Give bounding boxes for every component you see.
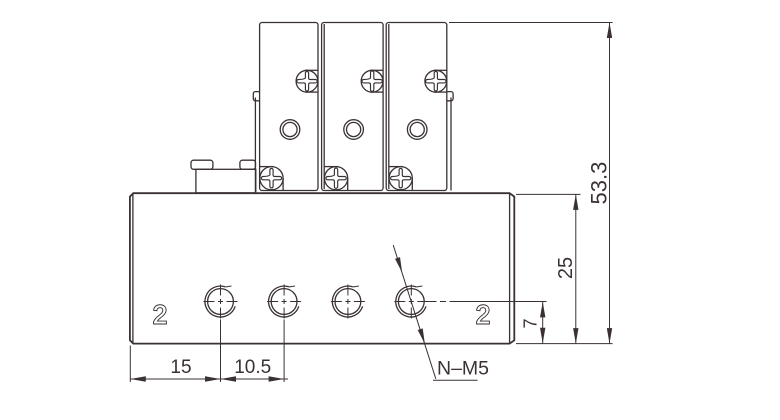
hole 1 centerline extension bbox=[220, 320, 222, 383]
valve V1 bottom mounting screw bbox=[260, 167, 283, 190]
valve V1 left clip tab bbox=[253, 92, 259, 101]
dim 25 dimension line bbox=[575, 194, 577, 343]
manifold right chamfer line bbox=[509, 193, 511, 343]
valve V3 bottom screw boss bbox=[389, 166, 403, 168]
svg-text:2: 2 bbox=[476, 300, 490, 330]
svg-text:25: 25 bbox=[555, 257, 577, 279]
leader line through hole 4 bbox=[393, 245, 436, 379]
solenoid valve V1 body bbox=[260, 23, 318, 191]
valve V1 top mounting screw bbox=[296, 70, 318, 92]
dim 25 arrow down bbox=[573, 328, 578, 344]
valve V2 top screw boss bbox=[370, 69, 383, 71]
threaded mounting hole 3 (N-M5) bbox=[335, 289, 361, 315]
valve V3 top screw boss bbox=[434, 69, 447, 71]
valve V3 bottom mounting screw bbox=[389, 167, 412, 190]
leader arrow at base bottom edge bbox=[418, 328, 425, 344]
manifold base block outline bbox=[130, 193, 514, 343]
valve V1 bottom screw boss bbox=[260, 166, 274, 168]
svg-text:15: 15 bbox=[170, 357, 191, 378]
dim 53.3 extension line bottom bbox=[516, 343, 613, 345]
dim 7 extension line (hole 4 centerline) bbox=[427, 301, 547, 303]
valve V1 pilot port (double circle) bbox=[280, 120, 300, 140]
dim 7 arrow down bbox=[540, 328, 545, 344]
threaded mounting hole 4 (N-M5) bbox=[398, 289, 424, 315]
valve V2 pilot port (double circle) bbox=[344, 120, 364, 140]
solenoid valve V3 body bbox=[386, 23, 447, 191]
end bracket block on manifold bbox=[196, 169, 256, 193]
dim 53.3 dimension line bbox=[609, 23, 611, 344]
svg-text:2: 2 bbox=[153, 300, 167, 330]
svg-text:7: 7 bbox=[521, 318, 541, 328]
bracket tab 2 bbox=[240, 160, 256, 169]
dim 7 arrow up bbox=[540, 302, 545, 318]
dim 10.5 arrow right bbox=[269, 376, 285, 381]
manifold left chamfer line bbox=[132, 193, 134, 343]
valve V3 left gasket line bbox=[388, 24, 390, 189]
valve V2 left gasket line bbox=[323, 24, 325, 189]
valve V1 side end-plate edge bbox=[254, 98, 256, 193]
bracket tab 1 bbox=[191, 160, 213, 169]
hole 2 centerline extension bbox=[283, 320, 285, 383]
svg-text:10.5: 10.5 bbox=[234, 357, 271, 378]
dim 15 arrow left bbox=[130, 376, 146, 381]
dim 53.3 extension line top bbox=[449, 22, 613, 24]
dim 25 arrow up bbox=[573, 194, 578, 210]
dim 53.3 arrow up bbox=[607, 23, 612, 39]
valve V1 top screw boss bbox=[305, 69, 318, 71]
dim 15 arrow right (bowtie) bbox=[205, 376, 221, 381]
leader upper arrow bbox=[395, 257, 402, 273]
valve V3 pilot port (double circle) bbox=[407, 120, 427, 140]
leader underline bbox=[433, 379, 478, 381]
valve V2 bottom screw boss bbox=[324, 166, 338, 168]
valve V2 bottom mounting screw bbox=[325, 167, 348, 190]
valve V3 top mounting screw bbox=[425, 70, 447, 92]
valve V3 right clip tab bbox=[447, 92, 453, 101]
dim 7 dimension line bbox=[542, 302, 544, 344]
valve V3 side end-plate edge bbox=[450, 98, 452, 191]
svg-text:N–M5: N–M5 bbox=[437, 357, 489, 379]
valve V2 top mounting screw bbox=[361, 70, 383, 92]
svg-text:53.3: 53.3 bbox=[587, 162, 612, 205]
threaded mounting hole 2 (N-M5) bbox=[271, 289, 297, 315]
solenoid valve V2 body bbox=[322, 23, 384, 191]
dim 53.3 arrow down bbox=[607, 328, 612, 344]
dim 10.5 arrow left (bowtie) bbox=[221, 376, 237, 381]
dim 15/10.5 dimension line bbox=[130, 378, 288, 380]
threaded mounting hole 1 (N-M5) bbox=[208, 289, 234, 315]
dim 25 extension line top bbox=[516, 193, 581, 195]
dim 15 extension line left bbox=[129, 346, 131, 383]
